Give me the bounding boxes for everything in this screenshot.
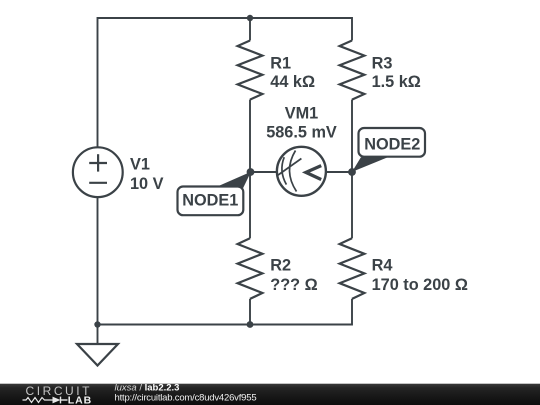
resistor R2 [238, 238, 263, 299]
svg-text:http://circuitlab.com/c8udv426: http://circuitlab.com/c8udv426vf955 [115, 393, 257, 404]
svg-text:1.5 kΩ: 1.5 kΩ [372, 73, 421, 91]
wire: meter left lead [250, 171, 277, 173]
svg-text:LAB: LAB [68, 394, 92, 405]
wire: R2 bottom lead [249, 299, 251, 325]
node junction dot top [247, 15, 253, 21]
svg-text:VM1: VM1 [285, 104, 318, 122]
node junction dot bottom left [94, 321, 100, 327]
voltmeter VM1 [277, 147, 326, 196]
node NODE2 junction dot [348, 168, 356, 176]
wire: R1 bottom lead down to NODE1 [249, 100, 251, 172]
wire: bottom horizontal from ground tee to R4 column [98, 198, 353, 325]
node NODE1 callout [178, 172, 252, 215]
svg-text:??? Ω: ??? Ω [270, 276, 317, 294]
node junction dot bottom mid [247, 321, 254, 328]
svg-text:NODE1: NODE1 [182, 192, 238, 210]
wire: top horizontal from V1 to R3 column [98, 18, 353, 148]
svg-text:NODE2: NODE2 [364, 136, 420, 154]
svg-text:V1: V1 [130, 156, 150, 174]
svg-text:44 kΩ: 44 kΩ [270, 73, 315, 91]
svg-text:170 to 200 Ω: 170 to 200 Ω [372, 276, 468, 294]
voltage source V1 [73, 147, 123, 197]
ground [77, 325, 118, 366]
svg-text:R1: R1 [270, 54, 291, 72]
svg-text:R3: R3 [372, 54, 393, 72]
footer bar [0, 384, 540, 405]
resistor R4 [340, 238, 365, 299]
resistor R1 [238, 41, 263, 100]
svg-text:10 V: 10 V [130, 175, 164, 193]
svg-text:586.5 mV: 586.5 mV [266, 124, 337, 142]
wire: R3 bottom lead down to NODE2 [351, 100, 353, 172]
node NODE2 callout [352, 128, 425, 172]
footer CircuitLab logo [23, 384, 93, 405]
svg-text:R4: R4 [372, 257, 393, 275]
wire: R1 top lead [249, 18, 251, 41]
wire: NODE1 down to R2 [249, 172, 251, 238]
wire: meter right lead [326, 171, 352, 173]
footer attribution text [115, 382, 257, 403]
wire: NODE2 down to R4 [351, 172, 353, 238]
node NODE1 junction dot [247, 168, 255, 176]
svg-text:R2: R2 [270, 257, 291, 275]
resistor R3 [340, 41, 365, 100]
